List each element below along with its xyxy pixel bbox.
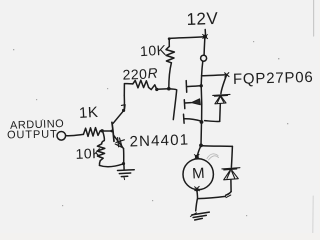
- wire node down to motor: [197, 145, 201, 156]
- transistor Q1 collector diagonal with arrow: [113, 110, 124, 124]
- wire body diode to bottom bend: [219, 104, 222, 121]
- resistor 220R zigzag: [133, 80, 149, 88]
- transistor Q1 emitter with arrow: [114, 136, 124, 149]
- MOSFET U1 channel vertical (drain-source line): [200, 76, 202, 86]
- label M: [192, 165, 205, 183]
- wire terminal to 1K: [66, 134, 84, 135]
- resistor 10K (gate pull-up) bottom lead: [169, 63, 172, 89]
- body diode D1 cathode bar: [213, 94, 230, 96]
- wire 12V node to 10K top: [169, 37, 204, 39]
- label 10K (gate pull-up): [140, 42, 167, 59]
- flyback diode D2 cathode bar: [222, 168, 240, 170]
- ground (motor/main): [190, 212, 209, 220]
- resistor 1K zigzag: [83, 128, 101, 137]
- gate wire from junction down to MOSFET gate: [169, 89, 177, 120]
- node bubble on source lead: [201, 55, 207, 61]
- wire motor bottom down: [196, 191, 198, 211]
- MOSFET U1 bottom-left bar: [183, 114, 186, 123]
- svg-text:FQP27P06: FQP27P06: [233, 69, 314, 88]
- wire 220R down to collector: [123, 95, 125, 109]
- motor M1 circle: [183, 159, 213, 190]
- wire MOSFET top to body-diode branch: [202, 75, 227, 76]
- transistor Q1 base bar: [112, 122, 114, 141]
- label 1K: [79, 104, 99, 122]
- base wire from 1K to Q1: [102, 130, 111, 132]
- wire motor bottom to diode bottom: [198, 196, 226, 198]
- MOSFET U1 top finger (source lead): [187, 85, 201, 88]
- input terminal circle: [57, 132, 66, 141]
- MOSFET U1 body arrow (points right): [192, 99, 201, 105]
- wire 10K bottom to emitter ground: [100, 164, 124, 167]
- svg-text:R: R: [147, 65, 158, 82]
- resistor 10K (base pulldown) bottom lead: [98, 161, 101, 166]
- wire emitter down to ground: [123, 149, 126, 170]
- resistor 10K (gate pull-up) zigzag: [166, 46, 174, 62]
- resistor 10K (base pulldown) top lead: [102, 131, 105, 143]
- MOSFET U1 top-left bar: [185, 81, 188, 93]
- MOSFET U1 bottom finger (drain lead): [184, 119, 202, 121]
- resistor 220R right tick and lead: [149, 85, 157, 90]
- 12V supply node: [203, 30, 208, 39]
- MOSFET U1 middle-left bar: [183, 100, 186, 109]
- label 220R: [122, 65, 158, 83]
- svg-text:10K: 10K: [140, 42, 167, 59]
- resistor 10K (gate pull-up) top lead: [168, 38, 170, 46]
- label 2N4401: [129, 131, 189, 150]
- svg-text:OUTPUT: OUTPUT: [7, 129, 58, 142]
- junction X at body-diode branch top: [225, 73, 229, 77]
- svg-text:2N4401: 2N4401: [129, 131, 189, 150]
- wire flyback branch down: [231, 146, 232, 167]
- wire node to flyback branch: [201, 145, 232, 148]
- wire body-diode bottom bend left: [205, 120, 220, 123]
- svg-text:M: M: [192, 165, 205, 183]
- body diode D1 triangle: [215, 95, 226, 103]
- wire body-diode branch down: [221, 75, 227, 94]
- label 12V: [186, 9, 219, 29]
- label Arduino: [10, 118, 65, 132]
- label output: [7, 129, 58, 142]
- motor bottom junction: [195, 188, 199, 192]
- MOSFET U1 middle finger (body lead): [185, 102, 192, 104]
- faint pencil scribble near motor: [207, 154, 219, 160]
- flyback diode D2 triangle: [224, 169, 239, 180]
- label FQP27P06: [233, 69, 314, 88]
- resistor 220R left bend: [124, 84, 133, 96]
- svg-text:1K: 1K: [79, 104, 99, 122]
- junction drain/motor/diode node: [199, 144, 203, 148]
- label 10K (base pulldown): [75, 145, 102, 162]
- svg-text:10K: 10K: [75, 145, 102, 162]
- wire flyback bottom bend with arrow: [226, 192, 231, 196]
- wire bubble to MOSFET top: [202, 61, 203, 76]
- wire flyback diode down: [230, 180, 232, 192]
- wire 12V node down to source bubble: [203, 39, 206, 55]
- svg-text:12V: 12V: [186, 9, 219, 29]
- scan artifact right edge: [313, 0, 315, 36]
- ground (emitter/10K): [118, 170, 135, 180]
- scan speckles: [13, 41, 288, 216]
- resistor 10K (base pulldown) zigzag: [97, 144, 105, 161]
- junction dot 10K/220R/gate: [167, 87, 171, 91]
